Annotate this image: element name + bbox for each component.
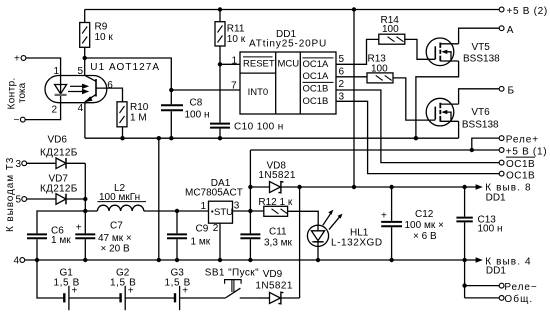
svg-text:STU: STU (214, 207, 233, 218)
svg-text:MC7805ACT: MC7805ACT (185, 188, 243, 199)
wire VT6 source to rail (458, 121, 460, 138)
resistor R10 (117, 102, 149, 127)
svg-text:КД212Б: КД212Б (40, 147, 78, 158)
svg-text:2: 2 (339, 79, 345, 90)
wire DD1 pin6 to R13 (336, 76, 367, 78)
svg-text:100 н: 100 н (185, 109, 210, 120)
svg-text:100 н: 100 н (478, 224, 503, 235)
svg-text:C9: C9 (196, 223, 209, 234)
wire R10 bottom to rail (122, 127, 124, 138)
node C7 bottom / ground rail (83, 258, 87, 262)
svg-text:47 мк ×: 47 мк × (98, 233, 132, 244)
node C10 bottom / rail (218, 136, 222, 140)
transistor VT6 BSS138 (426, 98, 499, 130)
wire - terminal to U1 pin2 (25, 103, 60, 120)
node VD9 link / VD8 row (297, 185, 301, 189)
svg-text:BSS138: BSS138 (463, 54, 500, 65)
U1 optical arrows (68, 84, 89, 95)
svg-text:Реле−: Реле− (504, 282, 537, 293)
wire DD1 pin2 to OC1B(inv) terminal row (336, 90, 499, 163)
svg-text:тока: тока (17, 82, 28, 103)
svg-text:OC1B: OC1B (303, 96, 329, 107)
svg-text:MCU: MCU (278, 58, 300, 69)
terminal Общ. (499, 293, 533, 305)
optocoupler U1 АОТ127А (45, 62, 160, 103)
svg-text:ОС1В: ОС1В (506, 159, 535, 170)
svg-text:C12: C12 (415, 209, 434, 220)
node VD7 / diode column (83, 197, 87, 201)
svg-text:1 М: 1 М (130, 112, 147, 123)
svg-text:1 мк: 1 мк (51, 235, 71, 246)
svg-text:OC1B: OC1B (303, 84, 329, 95)
node C13 branch / VD8 row (462, 185, 466, 189)
wire VT5 source to rail (416, 61, 459, 138)
svg-text:Б: Б (508, 85, 515, 96)
node R11 / pin1 junction (218, 62, 222, 66)
wire DD1 pin5 to R14 (336, 39, 379, 64)
capacitor C13 (456, 187, 502, 260)
terminal Б (499, 85, 514, 96)
node rail link top (157, 136, 161, 140)
wire C6 jog (37, 211, 85, 233)
terminal 4 (К выводам Т3) (13, 256, 24, 267)
wire VT6 drain to terminal Б (459, 89, 499, 104)
terminal - (Контр. тока) (14, 115, 26, 126)
svg-text:10 к: 10 к (95, 32, 114, 43)
resistor R9 (80, 10, 114, 59)
resistor R13 (367, 54, 393, 83)
terminal А (499, 25, 514, 36)
terminal + (Контр. тока) (14, 54, 26, 65)
DD1 overlines (RESET, OC1A pin5, OC1B pin2) (243, 57, 334, 83)
IC DD1 ATtiny25-20PU box (240, 29, 336, 114)
terminal ОС1В (inverted) (499, 157, 535, 170)
wire R11 to DD1 pin1 (220, 63, 240, 65)
transistor VT5 BSS138 (426, 38, 500, 66)
node C8 bottom / rail (169, 136, 173, 140)
wire VT5 drain to terminal A (459, 28, 499, 44)
svg-text:L-132XGD: L-132XGD (331, 238, 383, 249)
capacitor C11 (240, 226, 292, 260)
svg-text:VD6: VD6 (48, 135, 68, 146)
svg-text:U1 АОТ127А: U1 АОТ127А (90, 62, 160, 73)
svg-text:А: А (507, 25, 514, 36)
U1 pin number labels (51, 66, 113, 116)
node DA1 output column / R12 row (248, 209, 252, 213)
battery G3 (165, 267, 226, 310)
terminal Реле- (499, 282, 537, 293)
svg-text:2: 2 (51, 105, 57, 116)
svg-text:+: + (182, 286, 188, 297)
wire battery feed down (37, 260, 64, 298)
terminal ОС1В (499, 170, 535, 181)
svg-text:+: + (14, 54, 20, 65)
terminal 3 (К выводам Т3) (15, 159, 26, 170)
svg-text:DD1: DD1 (486, 193, 506, 204)
svg-text:5: 5 (15, 195, 21, 206)
wire top +5V(2) rail (85, 9, 499, 11)
svg-text:1N5821: 1N5821 (255, 280, 292, 291)
svg-text:Общ.: Общ. (504, 293, 533, 305)
svg-text:10 к: 10 к (227, 34, 246, 45)
wire +5V(1) row (250, 149, 499, 151)
resistor R11 (215, 10, 246, 65)
svg-text:3: 3 (15, 159, 21, 170)
arrow К выв. 4 DD1 (465, 256, 532, 276)
svg-text:× 6 В: × 6 В (413, 231, 437, 242)
svg-text:2: 2 (213, 223, 219, 234)
node output column / VD8 row (248, 185, 252, 189)
svg-text:C11: C11 (269, 226, 287, 237)
svg-text:1 мк: 1 мк (191, 237, 211, 248)
capacitor C9 (167, 211, 211, 260)
node C8 top / INT0 wire (169, 88, 173, 92)
capacitor C8 (161, 90, 210, 138)
node C13 bottom / rail (462, 258, 466, 262)
U1 LED (emitter diode) (55, 76, 67, 103)
DD1 pin number labels (231, 54, 345, 103)
wire ground rail y260 (25, 259, 465, 261)
svg-text:C8: C8 (190, 98, 203, 109)
node diode column / L2 row (83, 209, 87, 213)
svg-text:ATtiny25-20PU: ATtiny25-20PU (249, 39, 327, 50)
wire terminal5 to VD7 (27, 198, 56, 200)
wire R11 node down to C10 (219, 64, 221, 122)
node +5V2 link / VD8 row (352, 185, 356, 189)
svg-text:C10 100 н: C10 100 н (234, 121, 284, 132)
DD1 port labels (243, 58, 329, 107)
capacitor C10 (210, 121, 284, 138)
node Реле+ branch (470, 148, 474, 152)
svg-text:5: 5 (339, 54, 345, 65)
wire R9 bottom to C8 column (85, 58, 172, 90)
svg-text:100 мк ×: 100 мк × (405, 220, 444, 231)
node C12 bottom / rail (389, 258, 393, 262)
terminal +5 В (1) (499, 147, 547, 158)
wire DA1 pin2 to ground rail (219, 223, 221, 260)
svg-text:RESET: RESET (243, 58, 275, 69)
svg-text:6: 6 (107, 80, 113, 91)
svg-text:ОС1В: ОС1В (506, 170, 535, 181)
svg-text:3: 3 (234, 200, 240, 211)
node rail link bottom (157, 258, 161, 262)
svg-text:100: 100 (382, 24, 399, 35)
wire ground drop to Реле-/Общ (464, 260, 466, 298)
svg-text:1: 1 (53, 66, 59, 77)
node C9 bottom / ground rail (175, 258, 179, 262)
wire R13 to VT6 gate (393, 78, 435, 120)
terminal +5 V (2) (499, 6, 548, 17)
node HL1 cathode / rail (316, 258, 320, 262)
svg-text:C7: C7 (110, 220, 123, 231)
svg-text:+: + (72, 286, 78, 297)
battery G1 (54, 267, 121, 310)
label Контр. тока (7, 77, 29, 109)
svg-text:Контр.: Контр. (7, 77, 18, 109)
wire source/ground rail y138 (85, 137, 459, 139)
svg-text:4: 4 (78, 103, 84, 114)
wire R14 to VT5 gate (405, 39, 436, 59)
svg-text:INT0: INT0 (248, 87, 269, 98)
svg-text:+: + (76, 223, 82, 234)
svg-text:−: − (14, 115, 20, 126)
svg-text:OC1A: OC1A (303, 59, 330, 70)
svg-text:Реле+: Реле+ (506, 135, 539, 146)
diode VD7 КД212Б (40, 174, 85, 205)
svg-text:1N5821: 1N5821 (258, 170, 295, 181)
svg-text:R12 1 к: R12 1 к (258, 197, 292, 208)
wire VD9 cathode link up to +5V2 node (299, 187, 301, 298)
diode VD8 1N5821 (250, 160, 464, 192)
battery G2 (110, 267, 175, 310)
capacitor C7 (electrolytic) (75, 211, 132, 260)
node top rail / +5V2 link junction (352, 7, 356, 11)
svg-text:SB1 "Пуск": SB1 "Пуск" (205, 268, 259, 279)
svg-text:VT6: VT6 (471, 107, 490, 118)
svg-text:+5 В (1): +5 В (1) (506, 147, 547, 158)
terminal Реле+ (499, 135, 539, 146)
svg-text:5: 5 (77, 66, 83, 77)
svg-text:DD1: DD1 (486, 266, 506, 277)
wire DA1 pin3 to output node (233, 210, 264, 212)
arrow К выв. 8 DD1 (465, 182, 532, 203)
resistor R12 (258, 197, 292, 216)
node top rail / R11 junction (218, 7, 222, 11)
node C11 bottom / rail (248, 258, 252, 262)
wire rail link vertical x158.8 (158, 138, 160, 260)
node C12 top / VD8 row (389, 185, 393, 189)
node R10 / rail (120, 136, 124, 140)
node VT5 source / rail (414, 136, 418, 140)
capacitor C12 (electrolytic) (381, 187, 444, 260)
wire Реле- stub (465, 285, 499, 287)
terminal 5 (К выводам Т3) (15, 195, 26, 206)
svg-text:6: 6 (339, 67, 345, 78)
svg-text:К выводам Т3: К выводам Т3 (5, 157, 16, 232)
wire Реле+ stub (472, 138, 499, 150)
svg-text:1: 1 (231, 55, 237, 66)
svg-text:100: 100 (371, 64, 388, 75)
wire L2 to DA1 pin1 (144, 210, 209, 212)
resistor R14 (379, 15, 405, 44)
wire R12 to HL1 anode (288, 211, 319, 225)
svg-text:VD9: VD9 (263, 269, 283, 280)
svg-text:R9: R9 (95, 22, 108, 33)
wire +5V2 link vertical (353, 10, 355, 188)
wire Общ stub (465, 297, 499, 299)
wire output column vertical (249, 150, 251, 233)
node Реле- branch (462, 283, 466, 287)
wire + terminal to U1 pin1 (26, 58, 61, 76)
node C6 bottom / ground rail (35, 258, 39, 262)
pushbutton SB1 "Пуск" (205, 268, 259, 298)
svg-text:VT5: VT5 (472, 42, 491, 53)
svg-text:7: 7 (231, 81, 237, 92)
svg-text:+: + (381, 211, 387, 222)
U1 phototransistor (85, 58, 96, 102)
capacitor C6 (27, 225, 71, 260)
wire DD1 pin3 to OC1B terminal row (336, 101, 499, 173)
node R9 / U1 pin5 junction (83, 56, 87, 60)
diode VD6 КД212Б (40, 135, 85, 169)
svg-text:+: + (128, 286, 134, 297)
LED HL1 L-132XGD (307, 210, 382, 260)
svg-text:BSS138: BSS138 (462, 120, 499, 131)
node C9 top / L2 row (175, 209, 179, 213)
svg-text:OC1A: OC1A (303, 71, 330, 82)
inductor L2 (85, 183, 146, 211)
svg-text:1: 1 (200, 201, 206, 212)
svg-text:+5 В (2): +5 В (2) (507, 6, 548, 17)
node DA1 pin2 / rail (218, 258, 222, 262)
svg-text:4: 4 (13, 256, 19, 267)
wire VD6 down the diode column (84, 163, 86, 211)
wire terminal3 to VD6 (27, 162, 56, 164)
wire U1 pin6 to R10 (96, 88, 123, 102)
diode VD9 1N5821 (255, 269, 299, 304)
regulator DA1 MC7805ACT (185, 178, 243, 234)
svg-text:× 20 В: × 20 В (101, 243, 131, 254)
wire INT0 (C8 node to DD1 pin7) (171, 89, 240, 91)
svg-text:3,3 мк: 3,3 мк (264, 238, 293, 249)
wire U1 pin4 to bottom rail (84, 102, 86, 138)
svg-text:КД212Б: КД212Б (40, 183, 78, 194)
